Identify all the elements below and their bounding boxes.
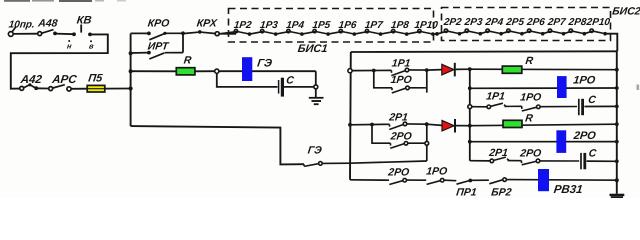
svg-text:2РО: 2РО <box>387 167 410 179</box>
box БИС1 <box>229 9 434 43</box>
wire pair1 rejoin <box>426 70 428 93</box>
wire <box>584 105 616 107</box>
wire contact chain <box>250 32 421 34</box>
svg-text:1Р10: 1Р10 <box>414 20 439 31</box>
fuse П5 <box>87 85 105 92</box>
contact 2Р2 <box>444 29 461 36</box>
svg-text:2Р5: 2Р5 <box>505 17 526 28</box>
ground right <box>610 195 625 198</box>
capacitor C3 <box>581 153 585 169</box>
svg-text:2Р1: 2Р1 <box>388 112 409 124</box>
contact 2Р7 <box>548 29 565 36</box>
svg-text:ИРТ: ИРТ <box>147 41 171 53</box>
svg-text:А48: А48 <box>37 18 59 30</box>
contact 1РО <box>522 105 577 111</box>
resistor R2 <box>502 66 522 73</box>
node diode2 rail <box>468 124 472 128</box>
wire 1Р1 row <box>352 69 392 71</box>
svg-text:2Р3: 2Р3 <box>463 17 484 28</box>
left rail of network <box>349 52 352 180</box>
svg-text:ПР1: ПР1 <box>456 187 478 198</box>
capacitor C2 <box>579 99 583 115</box>
svg-text:2Р2: 2Р2 <box>442 17 463 28</box>
svg-text:1Р3: 1Р3 <box>259 20 279 31</box>
resistor R1 <box>176 68 195 75</box>
svg-text:2РО: 2РО <box>519 148 542 160</box>
svg-text:БИС1: БИС1 <box>297 43 328 55</box>
wire <box>13 33 38 35</box>
svg-text:БИС2: БИС2 <box>612 5 640 17</box>
node row5 rail <box>468 140 472 144</box>
contact 2Р6 <box>528 29 545 36</box>
diode VD2 <box>442 119 455 133</box>
wire 2РО branch <box>372 125 391 144</box>
wire to diode2 <box>427 124 442 125</box>
svg-text:1Р8: 1Р8 <box>390 20 410 31</box>
contact 1Р4 <box>287 29 304 35</box>
svg-text:2РО: 2РО <box>389 130 412 142</box>
ground <box>309 98 324 104</box>
node row4 right rail <box>615 122 619 126</box>
svg-text:2Р7: 2Р7 <box>546 17 567 28</box>
node A <box>215 69 219 73</box>
contact 1РО <box>392 86 426 93</box>
node split pair1 <box>372 69 376 73</box>
svg-text:П5: П5 <box>88 73 104 85</box>
wire row6 <box>470 160 490 162</box>
wire contact chain <box>460 31 593 34</box>
contact КРО <box>131 32 183 40</box>
wire top branch <box>219 70 316 72</box>
svg-text:1Р2: 1Р2 <box>233 20 253 31</box>
node row3 rail <box>468 105 472 109</box>
relay coil РВ31 <box>538 169 549 191</box>
contact А48 <box>38 30 57 36</box>
contact 1РО <box>427 178 457 184</box>
svg-text:1РО: 1РО <box>520 91 542 103</box>
contact 1Р6 <box>339 29 356 35</box>
svg-text:2Р6: 2Р6 <box>525 17 546 28</box>
box БИС2 <box>442 8 611 41</box>
svg-text:КВ: КВ <box>76 15 92 27</box>
svg-text:1РО: 1РО <box>573 74 597 86</box>
contact 1Р1 <box>487 103 522 108</box>
svg-text:2Р4: 2Р4 <box>484 17 505 28</box>
node row1 right rail <box>615 68 619 72</box>
node row2 rail <box>468 86 472 90</box>
diode output rail <box>469 69 471 161</box>
contact 1Р10 <box>418 29 435 35</box>
contact 1Р1 <box>391 68 426 75</box>
svg-text:2Р1: 2Р1 <box>488 147 509 159</box>
wire top edge <box>351 50 618 53</box>
node row2 right rail <box>615 86 619 90</box>
svg-text:ГЭ: ГЭ <box>257 58 273 70</box>
wire row4 right <box>470 124 617 126</box>
terminal 10пр. <box>8 27 16 37</box>
switch КВ <box>68 25 92 43</box>
contact 2Р4 <box>486 29 503 36</box>
wire ГЭ feed from left rail <box>131 126 304 164</box>
wire row1 right <box>470 68 617 71</box>
svg-text:А42: А42 <box>19 74 43 86</box>
svg-text:1Р5: 1Р5 <box>312 20 332 31</box>
wire row3 <box>472 106 487 108</box>
svg-text:АРС: АРС <box>51 74 78 86</box>
svg-text:10пр.: 10пр. <box>8 20 35 31</box>
wire to diode <box>427 69 442 72</box>
wire <box>587 160 617 162</box>
relay coil 2РО <box>556 130 566 153</box>
svg-text:2Р8: 2Р8 <box>567 17 588 28</box>
node pair1 out <box>425 68 429 72</box>
wire row7 РВ31 feed <box>350 179 389 181</box>
node between boxes <box>435 32 439 36</box>
wire row5 right <box>470 141 617 143</box>
svg-text:1Р1: 1Р1 <box>486 90 506 102</box>
right rail of network <box>616 51 618 194</box>
right vertical of ГЭ cell <box>315 71 317 85</box>
svg-text:1РО: 1РО <box>426 166 448 178</box>
contact 2РО <box>390 142 425 149</box>
wire <box>284 86 314 88</box>
node <box>181 31 185 35</box>
svg-text:1Р1: 1Р1 <box>391 58 411 70</box>
node pair2 out <box>425 122 429 126</box>
relay coil 1РО <box>557 76 567 98</box>
diode VD1 <box>442 63 455 77</box>
contact 2РО <box>522 159 580 165</box>
contact ПР1 <box>457 179 489 185</box>
wire БИС2 output step down to box top <box>605 34 617 52</box>
wire joining ИРТ branch up to КРО row <box>182 33 184 52</box>
node R row <box>129 69 133 73</box>
wire БИС1 to БИС2 <box>433 31 447 34</box>
contact 1Р3 <box>261 29 278 35</box>
wire wrap from КВ down to second row <box>11 34 108 88</box>
contact 2РО <box>389 178 426 184</box>
relay coil ГЭ <box>242 57 252 81</box>
contact 2Р5 <box>507 29 524 36</box>
contact ГЭ <box>304 162 350 167</box>
contact АРС <box>49 85 71 91</box>
svg-text:КРО: КРО <box>147 18 170 30</box>
node row6 right rail <box>615 159 619 163</box>
wire 2Р1 row <box>350 123 390 126</box>
contact А42 <box>20 83 38 90</box>
contact ИРТ <box>131 51 183 59</box>
contact 1Р5 <box>313 29 330 35</box>
svg-text:1Р6: 1Р6 <box>338 20 358 31</box>
wire bottom branch <box>217 73 278 87</box>
svg-text:ГЭ: ГЭ <box>307 144 323 156</box>
wire <box>55 33 74 36</box>
contact 2Р1 <box>389 122 426 129</box>
wire to ground <box>315 89 317 98</box>
node row3 right rail <box>615 105 619 109</box>
resistor R3 <box>503 120 522 127</box>
wire <box>195 70 215 72</box>
wire diode out <box>456 68 470 70</box>
wire diode2 out <box>456 125 470 127</box>
wire row2 right <box>470 87 617 89</box>
svg-text:БР2: БР2 <box>491 187 513 198</box>
node pair2 rejoin circle <box>425 141 429 145</box>
svg-text:1РО: 1РО <box>390 74 412 86</box>
contact 1Р8 <box>392 29 409 35</box>
node ИРТ row <box>129 51 133 55</box>
svg-text:РВ31: РВ31 <box>553 184 583 196</box>
svg-text:1Р4: 1Р4 <box>286 20 306 31</box>
contact КРХ <box>183 30 236 36</box>
contact 1Р2 <box>234 29 251 35</box>
contact БР2 <box>489 178 617 184</box>
wire to rail <box>105 88 131 90</box>
node split pair2 <box>370 123 374 127</box>
node diode1 rail <box>468 67 472 71</box>
wire <box>36 87 49 89</box>
contact 2Р3 <box>465 29 482 36</box>
wire <box>71 88 88 90</box>
svg-text:2Р10: 2Р10 <box>585 17 611 28</box>
node 2Р1 row on left rail <box>348 123 352 127</box>
node 1Р1 row on left rail <box>348 69 352 73</box>
node row7 right rail <box>615 178 619 182</box>
left rail <box>130 34 132 127</box>
contact 2Р8 <box>569 29 586 36</box>
svg-text:КРХ: КРХ <box>196 18 218 30</box>
top edge scan smudge <box>4 0 126 2</box>
contact 2Р1 <box>490 157 522 163</box>
stray mark right edge <box>637 85 640 91</box>
wire R row <box>131 70 177 72</box>
wire 1РО branch <box>374 71 392 88</box>
svg-text:2РО: 2РО <box>572 130 597 142</box>
capacitor C1 <box>279 78 283 97</box>
node row5 right rail <box>615 140 619 144</box>
junction node on rail <box>129 86 133 90</box>
contact 1Р7 <box>365 29 382 35</box>
wire КРХ to БИС1 <box>219 32 237 34</box>
contact 2Р10 <box>590 29 607 36</box>
node <box>314 85 318 89</box>
svg-text:1Р7: 1Р7 <box>364 20 384 31</box>
wire pair2 vertical <box>426 124 428 161</box>
wire link to ГЭ line <box>350 161 427 163</box>
